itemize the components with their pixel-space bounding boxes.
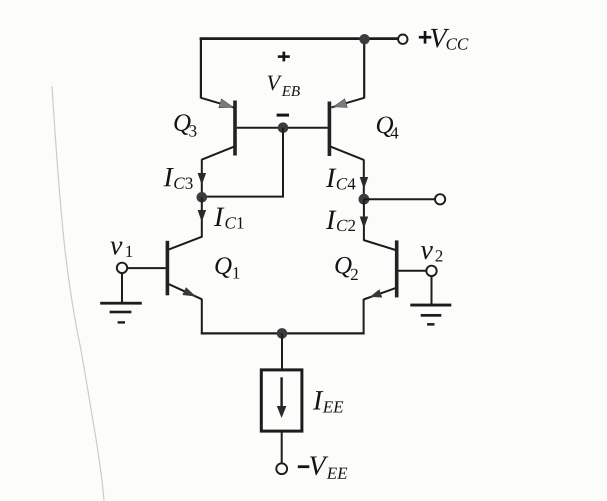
arrow IC1 current arrowhead — [198, 210, 207, 222]
label VEB — [268, 76, 300, 96]
transistor Q4 collector lead — [330, 147, 364, 160]
wire: left drop from top rail to Q3 emitter — [200, 37, 202, 98]
ground symbol under v1 — [100, 302, 142, 324]
node B: right collector junction dot — [359, 194, 370, 205]
wire: tail dot to current source — [281, 333, 283, 369]
wire: Q1 base lead to v1 terminal — [127, 267, 166, 269]
transistor Q4 (pnp) emitter lead with gray arrowhead — [331, 98, 364, 108]
transistor Q1 emitter lead with arrowhead — [169, 284, 202, 299]
label Q1 — [215, 257, 239, 278]
transistor Q1 (npn) collector lead — [169, 237, 202, 250]
label IC4 — [326, 169, 356, 190]
label IC2 — [326, 211, 355, 231]
transistor Q3 base bar — [233, 101, 237, 156]
transistor Q3 collector lead — [202, 146, 235, 159]
transistor Q2 emitter lead with arrowhead — [364, 288, 396, 299]
transistor Q3 (pnp) emitter lead with gray arrowhead — [201, 98, 234, 108]
arrow IEE current arrow inside box — [277, 377, 287, 418]
label +VCC — [419, 29, 469, 50]
wire: Q1 emitter vertical — [201, 299, 203, 335]
wire: Q4 collector vertical into node B — [363, 160, 365, 200]
wire: diode-connect tie horizontal to left collector node — [202, 196, 284, 198]
wire: output lead from node B — [364, 198, 435, 200]
label v2 — [421, 246, 442, 261]
wire: base rail between Q3 and Q4 — [237, 127, 328, 129]
terminal: v1 open circle — [117, 263, 127, 273]
wire: bottom emitter rail — [201, 332, 365, 334]
terminal: -VEE open circle — [276, 463, 287, 474]
node: junction dot on VCC rail — [359, 34, 369, 44]
label Q4 — [377, 116, 399, 138]
terminal: v2 open circle — [426, 266, 436, 276]
arrow IC4 current arrowhead — [360, 177, 369, 189]
node: base junction dot — [278, 122, 289, 133]
wire: Q2 base lead to v2 terminal — [398, 270, 426, 272]
ground symbol under v2 — [410, 304, 451, 326]
transistor Q2 (npn) collector lead — [363, 240, 395, 250]
arrow IC3 current arrowhead — [198, 173, 207, 185]
wire: diode-connect tie vertical from base dot — [282, 128, 284, 197]
wire: Q3 collector vertical into node A — [201, 159, 203, 197]
label IC1 — [214, 208, 244, 229]
label IC3 — [163, 168, 192, 189]
label Q3 — [174, 114, 196, 136]
transistor Q2 base bar — [395, 240, 399, 297]
arrow IC2 current arrowhead — [360, 217, 369, 229]
node: tail junction dot — [277, 328, 288, 339]
wire: v2 ground stem — [431, 276, 433, 305]
transistor Q4 base bar — [328, 102, 332, 157]
label v1 — [110, 242, 132, 257]
wire: v1 ground stem — [121, 273, 123, 303]
wire: drop from VCC junction to Q4 emitter — [363, 39, 365, 99]
node A: left collector junction dot — [197, 192, 208, 203]
label -VEE — [298, 456, 347, 478]
wire: node A down to Q1 collector — [201, 197, 203, 237]
wire: current source to -VEE terminal — [281, 432, 283, 464]
label Q2 — [335, 257, 357, 280]
label IEE — [313, 391, 343, 412]
current source IEE box — [261, 370, 302, 431]
wire: node B down to Q2 collector — [363, 199, 365, 240]
wire: +VCC top rail — [200, 37, 399, 40]
wire: Q2 emitter vertical — [363, 299, 365, 335]
transistor Q1 base bar — [166, 241, 170, 295]
terminal: +VCC open circle — [398, 35, 407, 44]
label plus sign of VEB — [278, 52, 290, 62]
label minus sign of VEB — [277, 114, 289, 117]
terminal: output open circle — [435, 194, 445, 204]
